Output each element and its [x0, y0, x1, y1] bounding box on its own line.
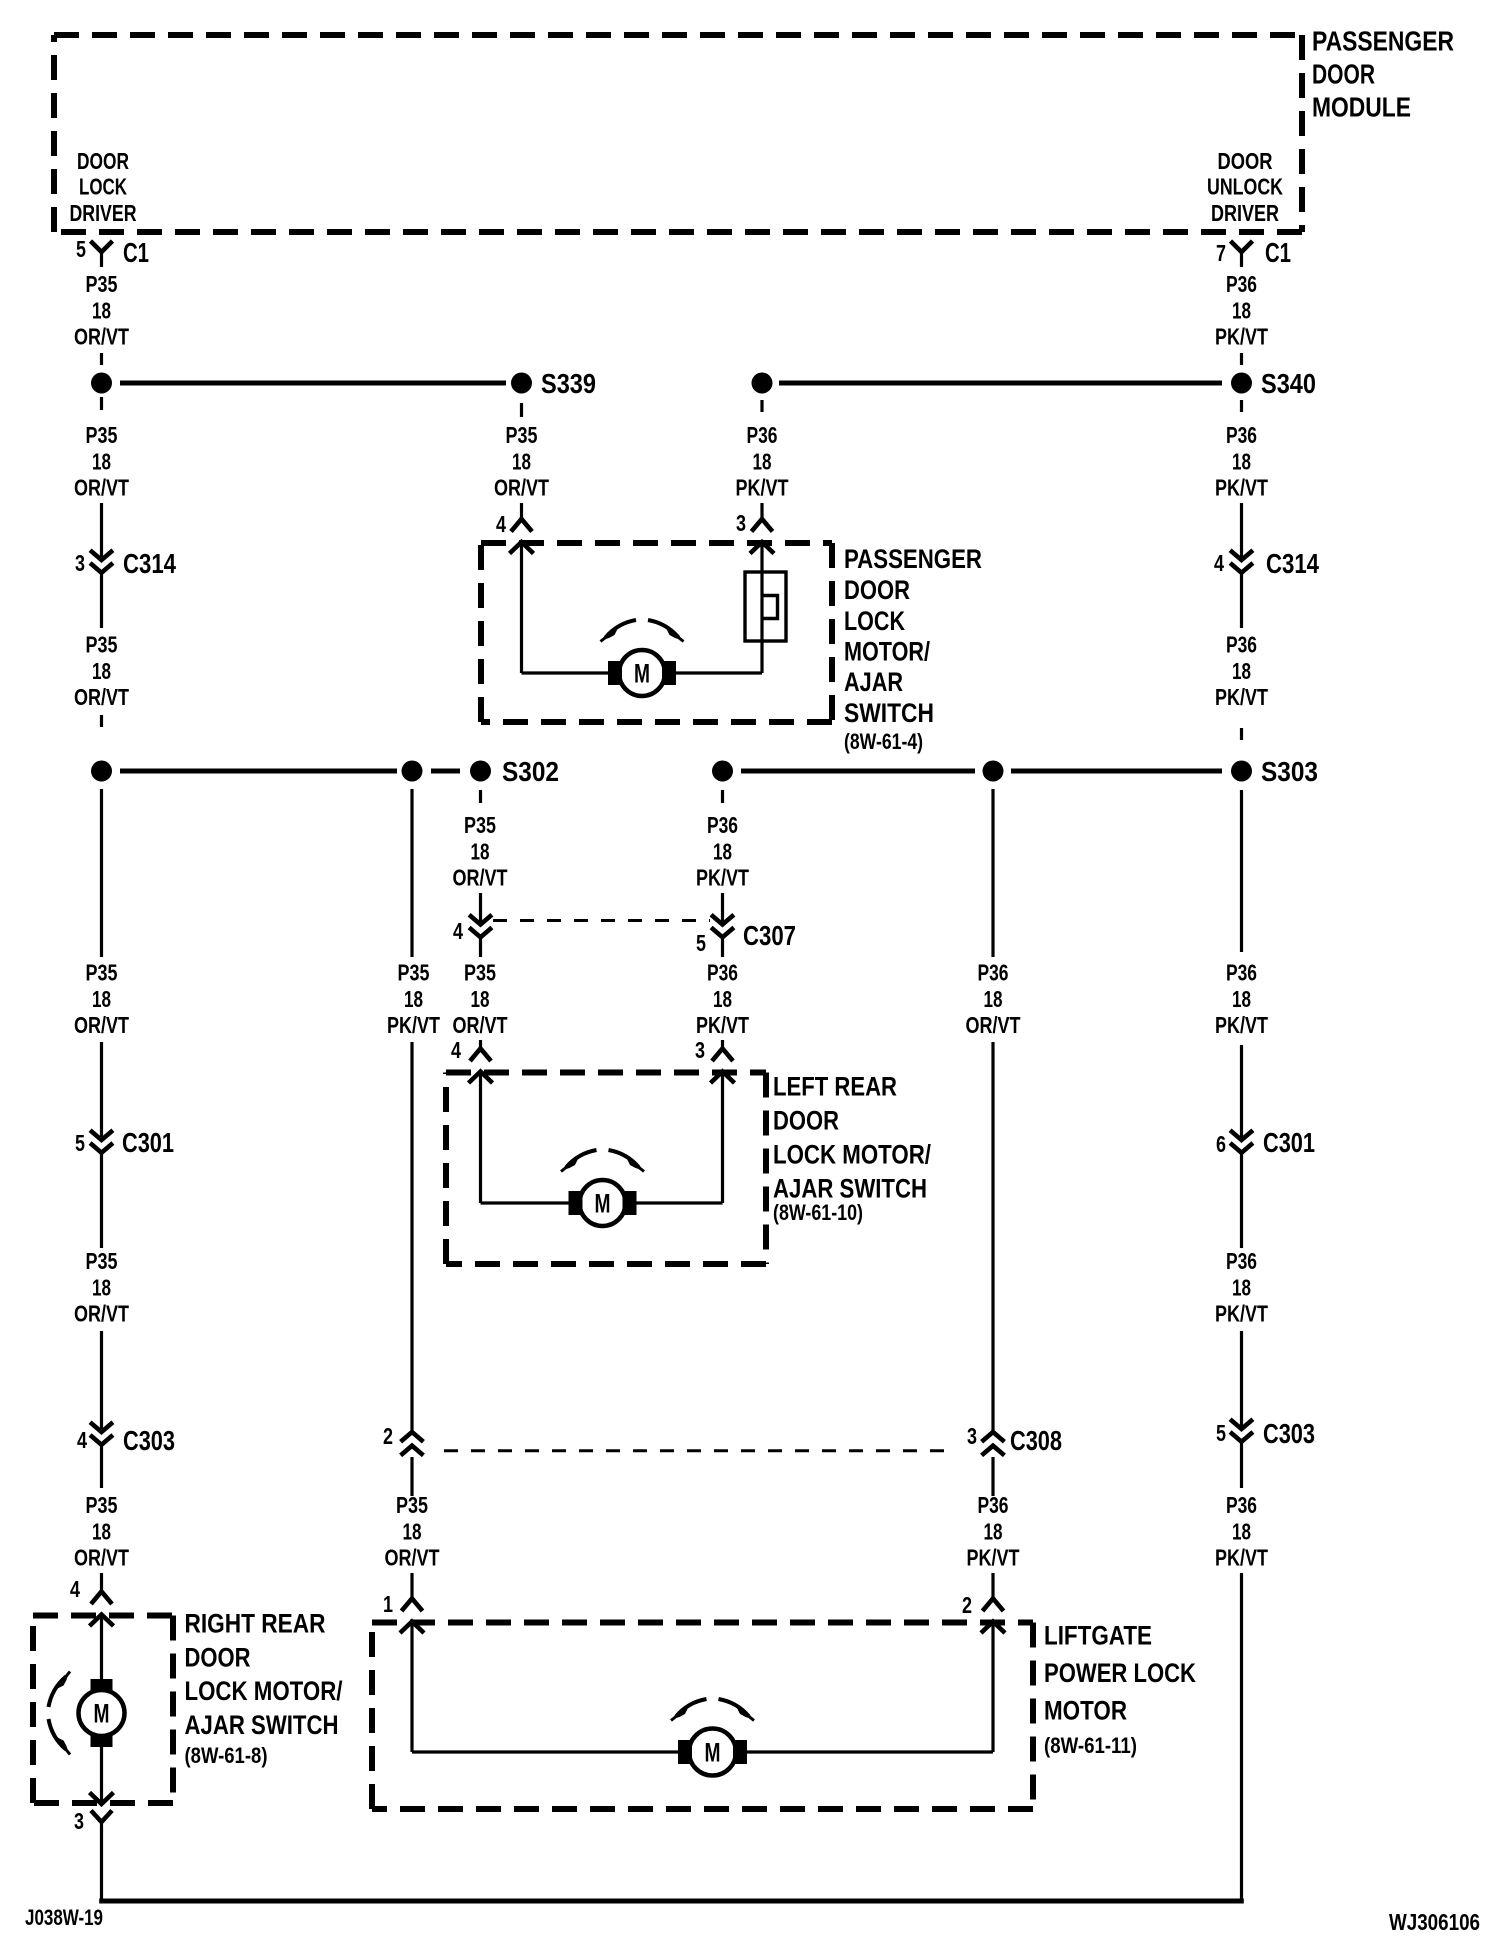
wire — [520, 542, 523, 673]
svg-text:P35: P35 — [86, 422, 118, 448]
wire — [721, 893, 724, 925]
wire (down to bottom run) — [1240, 1573, 1243, 1903]
connector C308 pin 3 — [982, 1432, 1005, 1442]
connector pin 4 (left rear door lock motor) — [470, 1049, 491, 1062]
wire — [100, 789, 103, 957]
svg-text:P35: P35 — [86, 632, 118, 658]
wire — [1240, 400, 1243, 412]
wire — [100, 1747, 103, 1804]
connector C303 pin 5 — [1230, 1419, 1253, 1429]
dashed link C307 — [493, 919, 710, 922]
svg-text:18: 18 — [1232, 297, 1251, 323]
svg-text:3: 3 — [736, 510, 746, 536]
svg-text:LOCK: LOCK — [844, 606, 905, 636]
svg-text:18: 18 — [403, 1518, 422, 1544]
svg-text:LIFTGATE: LIFTGATE — [1044, 1621, 1152, 1651]
connector C1 pin 7 — [1231, 241, 1253, 252]
svg-text:(8W-61-8): (8W-61-8) — [185, 1743, 268, 1768]
svg-text:S340: S340 — [1261, 368, 1316, 399]
wire — [100, 503, 103, 560]
wire — [479, 1072, 482, 1204]
svg-text:C1: C1 — [1265, 237, 1291, 268]
wire — [1240, 503, 1243, 560]
svg-text:OR/VT: OR/VT — [453, 865, 508, 891]
wire — [100, 1042, 103, 1140]
wire (S303 splice bus, left span) — [741, 769, 975, 774]
motor M (passenger door lock) — [606, 620, 637, 638]
svg-text:18: 18 — [1232, 1274, 1251, 1300]
svg-text:OR/VT: OR/VT — [966, 1012, 1021, 1038]
wire — [1240, 573, 1243, 628]
svg-text:18: 18 — [713, 986, 732, 1012]
svg-text:C314: C314 — [123, 548, 176, 579]
svg-text:P36: P36 — [978, 1492, 1009, 1518]
splice S303 — [1231, 761, 1252, 782]
svg-text:18: 18 — [92, 1518, 111, 1544]
svg-text:M: M — [595, 1189, 611, 1219]
wire — [991, 1042, 994, 1432]
wire — [100, 397, 103, 410]
svg-text:OR/VT: OR/VT — [453, 1012, 508, 1038]
svg-text:C303: C303 — [1263, 1418, 1315, 1449]
svg-text:M: M — [705, 1738, 721, 1768]
svg-text:AJAR SWITCH: AJAR SWITCH — [185, 1710, 339, 1740]
connector pin 3 (right rear door lock motor) — [90, 1793, 114, 1805]
svg-text:C301: C301 — [1263, 1127, 1315, 1158]
wire — [100, 1331, 103, 1432]
svg-text:PK/VT: PK/VT — [387, 1012, 440, 1038]
node: junction at column B / S302 bus — [402, 761, 423, 782]
connector C301 pin 6 — [1230, 1130, 1253, 1140]
svg-text:18: 18 — [713, 838, 732, 864]
node: junction at column E / S303 bus — [712, 761, 733, 782]
wire (bottom run) — [100, 1830, 103, 1903]
svg-text:(8W-61-11): (8W-61-11) — [1044, 1733, 1137, 1758]
module box: PASSENGER DOOR MODULE — [54, 32, 1302, 38]
connector C314 pin 3 — [90, 550, 113, 560]
wire — [100, 715, 103, 727]
wire — [479, 790, 482, 803]
svg-text:18: 18 — [471, 986, 490, 1012]
svg-text:P36: P36 — [707, 812, 738, 838]
svg-text:C314: C314 — [1266, 548, 1319, 579]
wire — [520, 403, 523, 417]
svg-text:DOOR: DOOR — [77, 148, 129, 174]
wire — [721, 937, 724, 957]
svg-text:OR/VT: OR/VT — [74, 1301, 129, 1327]
svg-text:DOOR: DOOR — [1312, 58, 1375, 89]
wire — [991, 1573, 994, 1599]
svg-text:PASSENGER: PASSENGER — [1312, 25, 1454, 56]
svg-text:J038W-19: J038W-19 — [25, 1905, 103, 1930]
svg-text:7: 7 — [1216, 240, 1226, 266]
svg-text:2: 2 — [383, 1423, 393, 1449]
wire — [1240, 353, 1243, 365]
wire — [410, 1622, 413, 1753]
svg-text:P35: P35 — [396, 1492, 428, 1518]
node: junction at column F / S340 bus — [752, 373, 773, 394]
wire — [479, 937, 482, 957]
svg-text:18: 18 — [92, 297, 111, 323]
connector C308 pin 2 — [401, 1432, 424, 1442]
svg-text:LEFT REAR: LEFT REAR — [773, 1072, 897, 1102]
svg-text:UNLOCK: UNLOCK — [1207, 174, 1283, 200]
svg-text:C303: C303 — [123, 1425, 175, 1456]
svg-text:MOTOR: MOTOR — [1044, 1696, 1127, 1726]
wire — [991, 1457, 994, 1496]
wire — [721, 790, 724, 803]
svg-text:18: 18 — [471, 838, 490, 864]
svg-text:MODULE: MODULE — [1312, 91, 1411, 122]
svg-text:PK/VT: PK/VT — [1215, 684, 1268, 710]
svg-text:AJAR: AJAR — [844, 667, 903, 697]
svg-text:LOCK MOTOR/: LOCK MOTOR/ — [773, 1139, 931, 1169]
wire — [100, 1445, 103, 1488]
svg-text:PK/VT: PK/VT — [967, 1545, 1020, 1571]
motor M (liftgate power lock) — [676, 1699, 707, 1717]
connector C307 pin 5 — [711, 915, 734, 925]
svg-text:DOOR: DOOR — [773, 1105, 839, 1135]
svg-text:OR/VT: OR/VT — [74, 475, 129, 501]
svg-text:SWITCH: SWITCH — [844, 698, 934, 728]
svg-text:LOCK MOTOR/: LOCK MOTOR/ — [185, 1676, 343, 1706]
svg-text:18: 18 — [512, 448, 531, 474]
svg-text:DOOR: DOOR — [1218, 148, 1273, 174]
wire — [520, 503, 523, 520]
svg-text:18: 18 — [1232, 986, 1251, 1012]
svg-text:4: 4 — [77, 1427, 87, 1453]
wire (S302 bus dash segment) — [431, 769, 460, 774]
svg-text:5: 5 — [1216, 1420, 1226, 1446]
svg-text:4: 4 — [496, 511, 506, 537]
svg-text:P35: P35 — [506, 422, 538, 448]
svg-text:P36: P36 — [707, 960, 738, 986]
motor M (right rear door lock) — [49, 1677, 67, 1708]
wire — [1240, 728, 1243, 740]
svg-text:PK/VT: PK/VT — [736, 475, 789, 501]
svg-text:4: 4 — [453, 918, 463, 944]
connector pin 2 (liftgate power lock motor) — [983, 1599, 1004, 1612]
svg-text:P36: P36 — [1226, 960, 1257, 986]
svg-text:3: 3 — [75, 550, 85, 576]
wire — [760, 542, 763, 673]
svg-text:OR/VT: OR/VT — [74, 684, 129, 710]
svg-text:LOCK: LOCK — [79, 174, 127, 200]
svg-text:18: 18 — [404, 986, 423, 1012]
svg-text:P36: P36 — [1226, 1248, 1257, 1274]
wire — [410, 1573, 413, 1599]
svg-text:18: 18 — [1232, 658, 1251, 684]
svg-text:4: 4 — [451, 1037, 461, 1063]
component box: RIGHT REAR DOOR LOCK MOTOR/AJAR SWITCH — [33, 1613, 173, 1619]
node: junction at column G / S303 bus — [983, 761, 1004, 782]
wire — [991, 1622, 994, 1753]
component box: LIFTGATE POWER LOCK MOTOR — [372, 1620, 1033, 1626]
svg-text:18: 18 — [92, 448, 111, 474]
connector pin 4 (passenger door lock motor) — [511, 519, 532, 532]
wire — [410, 1042, 413, 1432]
svg-text:PK/VT: PK/VT — [1215, 1301, 1268, 1327]
svg-text:P36: P36 — [747, 422, 778, 448]
svg-text:P35: P35 — [398, 960, 430, 986]
wire — [100, 1153, 103, 1248]
wire — [991, 789, 994, 957]
svg-text:(8W-61-10): (8W-61-10) — [773, 1200, 863, 1225]
svg-text:5: 5 — [696, 930, 706, 956]
wire — [760, 503, 763, 520]
wire — [721, 1040, 724, 1049]
connector C307 pin 4 — [469, 915, 492, 925]
svg-text:M: M — [94, 1699, 110, 1729]
svg-text:3: 3 — [695, 1037, 705, 1063]
connector C1 pin 5 — [91, 241, 113, 252]
ajar switch (passenger) — [745, 572, 786, 641]
component box: LEFT REAR DOOR LOCK MOTOR/AJAR SWITCH — [446, 1070, 766, 1076]
svg-text:WJ306106: WJ306106 — [1389, 1909, 1480, 1935]
svg-text:PK/VT: PK/VT — [1215, 324, 1268, 350]
wire — [1240, 1331, 1243, 1429]
wire — [721, 1072, 724, 1204]
wire — [1240, 790, 1243, 952]
svg-text:OR/VT: OR/VT — [74, 1545, 129, 1571]
svg-text:18: 18 — [92, 1274, 111, 1300]
connector C303 pin 4 — [90, 1422, 113, 1432]
svg-text:C307: C307 — [743, 920, 796, 951]
svg-text:18: 18 — [1232, 1518, 1251, 1544]
wire — [100, 1573, 103, 1592]
svg-text:18: 18 — [1232, 448, 1251, 474]
wire — [410, 1457, 413, 1496]
node: junction at column A / S302 bus — [91, 761, 112, 782]
wire — [100, 573, 103, 628]
motor M (left rear door lock) — [566, 1150, 597, 1168]
wire — [760, 400, 763, 412]
svg-text:P36: P36 — [1226, 632, 1257, 658]
svg-text:P35: P35 — [464, 812, 496, 838]
svg-text:OR/VT: OR/VT — [385, 1545, 440, 1571]
svg-text:18: 18 — [92, 658, 111, 684]
svg-text:PK/VT: PK/VT — [696, 865, 749, 891]
svg-text:RIGHT REAR: RIGHT REAR — [185, 1608, 326, 1638]
wire — [479, 1040, 482, 1049]
svg-text:POWER LOCK: POWER LOCK — [1044, 1658, 1196, 1688]
svg-text:P36: P36 — [978, 960, 1009, 986]
svg-text:3: 3 — [967, 1423, 977, 1449]
wire — [1240, 1153, 1243, 1248]
svg-text:DOOR: DOOR — [185, 1642, 251, 1672]
wire — [1240, 1442, 1243, 1488]
splice S339 — [511, 373, 532, 394]
svg-text:C1: C1 — [123, 237, 149, 268]
svg-text:P36: P36 — [1226, 271, 1257, 297]
svg-text:18: 18 — [92, 986, 111, 1012]
svg-text:6: 6 — [1216, 1131, 1226, 1157]
splice S340 — [1231, 373, 1252, 394]
connector C301 pin 5 — [90, 1130, 113, 1140]
svg-text:P35: P35 — [86, 1248, 118, 1274]
svg-text:S303: S303 — [1261, 756, 1318, 787]
svg-text:4: 4 — [1214, 550, 1224, 576]
svg-text:C308: C308 — [1010, 1425, 1062, 1456]
svg-text:DOOR: DOOR — [844, 575, 910, 605]
svg-text:18: 18 — [984, 986, 1003, 1012]
connector pin 3 (passenger door lock motor) — [752, 519, 773, 532]
svg-text:PK/VT: PK/VT — [696, 1012, 749, 1038]
svg-text:PK/VT: PK/VT — [1215, 475, 1268, 501]
svg-text:4: 4 — [70, 1576, 80, 1602]
wire — [410, 789, 413, 957]
svg-text:P36: P36 — [1226, 422, 1257, 448]
wire (S303 splice bus, right span) — [1011, 769, 1222, 774]
svg-text:OR/VT: OR/VT — [494, 475, 549, 501]
connector C314 pin 4 — [1230, 550, 1253, 560]
svg-text:5: 5 — [76, 236, 86, 262]
svg-text:DRIVER: DRIVER — [1211, 200, 1279, 226]
svg-text:PASSENGER: PASSENGER — [844, 544, 982, 574]
splice S302 — [470, 761, 491, 782]
svg-text:P35: P35 — [86, 960, 118, 986]
svg-text:3: 3 — [74, 1808, 84, 1834]
svg-text:OR/VT: OR/VT — [74, 324, 129, 350]
wire — [1240, 1045, 1243, 1140]
svg-text:P35: P35 — [464, 960, 496, 986]
wire (S302 splice bus) — [120, 769, 397, 774]
svg-text:DRIVER: DRIVER — [70, 200, 137, 226]
svg-text:S302: S302 — [502, 756, 559, 787]
wire (S339 splice bus) — [120, 381, 506, 386]
svg-text:S339: S339 — [541, 368, 596, 399]
svg-text:C301: C301 — [122, 1127, 174, 1158]
wire — [100, 1615, 103, 1680]
connector pin 4 (right rear door lock motor) — [91, 1592, 112, 1605]
dashed link C308 — [444, 1449, 950, 1452]
svg-text:AJAR SWITCH: AJAR SWITCH — [773, 1173, 927, 1203]
svg-text:PK/VT: PK/VT — [1215, 1545, 1268, 1571]
svg-text:PK/VT: PK/VT — [1215, 1012, 1268, 1038]
wire — [479, 893, 482, 925]
svg-text:5: 5 — [75, 1130, 85, 1156]
component box: PASSENGER DOOR LOCK MOTOR/AJAR SWITCH — [481, 540, 832, 546]
svg-text:MOTOR/: MOTOR/ — [844, 637, 930, 667]
svg-text:OR/VT: OR/VT — [74, 1012, 129, 1038]
svg-text:P35: P35 — [86, 271, 118, 297]
svg-text:18: 18 — [753, 448, 772, 474]
svg-text:18: 18 — [984, 1518, 1003, 1544]
connector pin 1 (liftgate power lock motor) — [402, 1599, 423, 1612]
connector pin 3 (left rear door lock motor) — [712, 1049, 733, 1062]
svg-text:(8W-61-4): (8W-61-4) — [844, 729, 923, 754]
svg-text:P35: P35 — [86, 1492, 118, 1518]
node: junction at column A / S339 bus — [91, 373, 112, 394]
wire (S340 splice bus) — [779, 381, 1222, 386]
svg-text:P36: P36 — [1226, 1492, 1257, 1518]
wire — [100, 353, 103, 365]
svg-text:1: 1 — [383, 1591, 393, 1617]
svg-text:2: 2 — [962, 1592, 972, 1618]
svg-text:M: M — [634, 659, 650, 689]
